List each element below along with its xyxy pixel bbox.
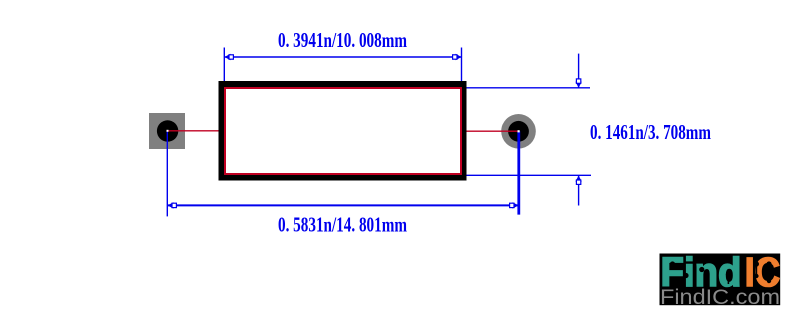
svg-text:FindIC.com: FindIC.com: [660, 286, 780, 309]
svg-text:0. 1461n/3. 708mm: 0. 1461n/3. 708mm: [590, 120, 711, 144]
wire: red lead line from body to pad 2: [466, 130, 518, 132]
resistor body courtyard (red): [225, 88, 461, 174]
dimension line: right height 3.708mm lower stem: [578, 176, 580, 206]
dimension line: right height 3.708mm upper stem: [578, 54, 580, 88]
logo: circuit via dots and traces: [670, 261, 675, 266]
extension line: right pad center vertical: [517, 131, 520, 214]
extension line: body bottom edge horizontal (right side): [462, 174, 592, 176]
extension line: body top edge horizontal (right side): [462, 87, 591, 89]
node: pad 1 center marker: [167, 130, 169, 132]
resistor body outline (black): [222, 84, 464, 178]
pad 2 (round pad with drill, right): [501, 114, 536, 149]
pad 1 (square SMD pad, left): [149, 113, 185, 149]
node: pad 2 center marker: [518, 130, 520, 132]
svg-text:0. 3941n/10. 008mm: 0. 3941n/10. 008mm: [278, 28, 407, 52]
extension line: top dimension left vertical: [223, 48, 225, 83]
extension line: top dimension right vertical: [461, 48, 463, 89]
extension line: left pad center vertical: [166, 131, 168, 216]
dimension line: top width 10.008mm: [225, 56, 462, 58]
logo: FindIC black background block: [660, 254, 781, 306]
svg-text:0. 5831n/14. 801mm: 0. 5831n/14. 801mm: [278, 213, 407, 237]
dimension line: bottom width 14.801mm: [168, 204, 519, 206]
wire: red lead line from pad 1 to body: [168, 130, 220, 132]
